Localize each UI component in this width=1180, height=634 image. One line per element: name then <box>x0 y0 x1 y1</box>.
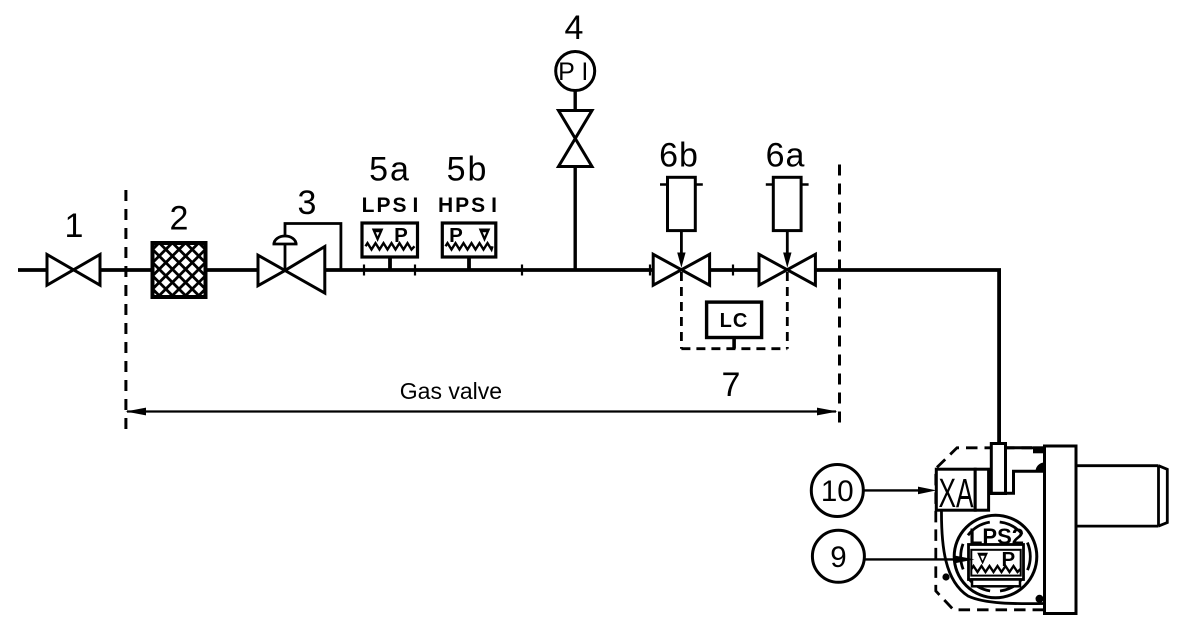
burner: XA box <box>936 469 975 510</box>
V6a valve body <box>759 254 815 285</box>
burner: dot left <box>942 573 949 580</box>
wire: LC stem <box>732 338 736 349</box>
gauge PI circle <box>556 52 595 91</box>
node: pipe joint ticks <box>364 265 733 276</box>
wire: riser to pipe <box>574 165 577 270</box>
svg-text:Gas valve: Gas valve <box>400 378 502 404</box>
svg-text:5a: 5a <box>369 151 411 189</box>
svg-text:9: 9 <box>830 541 846 574</box>
burner: body top edge <box>1006 446 1032 449</box>
regulator R3 stem <box>284 244 287 271</box>
controller LC box <box>707 302 762 337</box>
burner: dot bottom right <box>1036 595 1044 603</box>
pressure switch LPS1 box <box>362 223 418 257</box>
boundary: left dashed line of gas valve scope <box>124 190 127 429</box>
regulator R3 pilot line frame <box>285 224 341 271</box>
wire: pipe regulator to valve 6b <box>325 268 655 272</box>
HPS1 vent triangle <box>479 229 491 243</box>
pressure switch HPS1 box <box>442 223 496 257</box>
regulator R3 valve body <box>258 247 325 294</box>
LPS1 membrane zigzag <box>366 243 415 249</box>
wire: pipe between valve 6b and 6a <box>710 268 760 272</box>
callout circle 10 <box>811 465 863 517</box>
burner: volute scroll outline <box>941 507 1044 604</box>
burner: clamp quarter disc <box>1036 463 1045 472</box>
V6b actuator stem <box>680 231 683 256</box>
LPS2 pedestal <box>972 580 1020 587</box>
regulator R3 diaphragm dome <box>273 236 298 244</box>
burner: clamp dot top <box>1033 446 1044 453</box>
svg-text:XA: XA <box>939 470 974 516</box>
V6a actuator side ticks <box>766 183 809 186</box>
svg-text:10: 10 <box>821 475 854 508</box>
wire: pipe filter to regulator <box>206 268 259 272</box>
LPS2 membrane zigzag <box>972 566 1021 572</box>
burner: fan housing inner dashed circle <box>961 522 1031 592</box>
filter F2 crosshatch <box>140 182 220 356</box>
burner: body step outline <box>991 471 1044 493</box>
svg-text:6a: 6a <box>766 137 806 175</box>
callout circle 9 <box>812 530 864 582</box>
svg-text:7: 7 <box>722 366 741 404</box>
burner: fan housing outer circle <box>954 515 1037 598</box>
burner: blast tube <box>1076 466 1159 526</box>
wire: pipe valve 6a to burner elbow <box>815 270 999 444</box>
LPS1 vent triangle <box>372 229 384 243</box>
svg-text:I: I <box>581 58 588 86</box>
burner: mounting flange <box>1045 446 1077 614</box>
LPS2 inner rect <box>971 550 1020 576</box>
V6b actuator side ticks <box>660 183 703 186</box>
wire: dashed control lines to LC <box>681 272 787 349</box>
svg-text:1: 1 <box>65 207 84 245</box>
solenoid valve V6b actuator <box>668 177 696 230</box>
svg-text:2: 2 <box>170 200 189 238</box>
LPS2 vent triangle <box>977 553 988 565</box>
wire: main pipe segment left inlet <box>18 268 47 272</box>
svg-text:P: P <box>558 58 575 86</box>
wire: pipe valve1 to filter <box>100 268 153 272</box>
arrow from 9 to LPS2 <box>865 558 956 560</box>
svg-text:5b: 5b <box>447 151 489 189</box>
svg-text:LPSI: LPSI <box>362 194 421 217</box>
V6a stem arrowhead <box>783 253 791 268</box>
burner: gas inlet connector <box>991 444 1005 494</box>
svg-text:3: 3 <box>298 184 317 222</box>
gauge shutoff valve V4 <box>559 111 593 167</box>
arrow from 10 to XA <box>864 489 919 491</box>
HPS1 membrane zigzag <box>446 243 493 249</box>
svg-text:LC: LC <box>720 310 749 332</box>
filter F2 body <box>153 243 206 297</box>
burner: XA side box <box>975 469 988 510</box>
dimension: gas valve extent arrow <box>127 410 836 412</box>
burner: blast tube end cap <box>1159 466 1168 526</box>
V6b valve body <box>653 254 709 285</box>
valve V1 (manual shutoff) <box>47 255 100 286</box>
V6a actuator stem <box>786 231 789 256</box>
V6b stem arrowhead <box>677 253 685 268</box>
solenoid valve V6a actuator <box>773 177 801 230</box>
wire: gauge stem <box>574 90 577 112</box>
burner: dashed scope boundary <box>936 448 1044 610</box>
LPS1 stem to pipe <box>388 257 392 269</box>
svg-text:6b: 6b <box>659 137 699 175</box>
boundary: right dashed line of gas valve scope <box>838 165 841 424</box>
HPS1 stem to pipe <box>467 257 471 269</box>
svg-text:4: 4 <box>565 9 584 47</box>
pressure switch LPS2 box <box>969 545 1024 580</box>
